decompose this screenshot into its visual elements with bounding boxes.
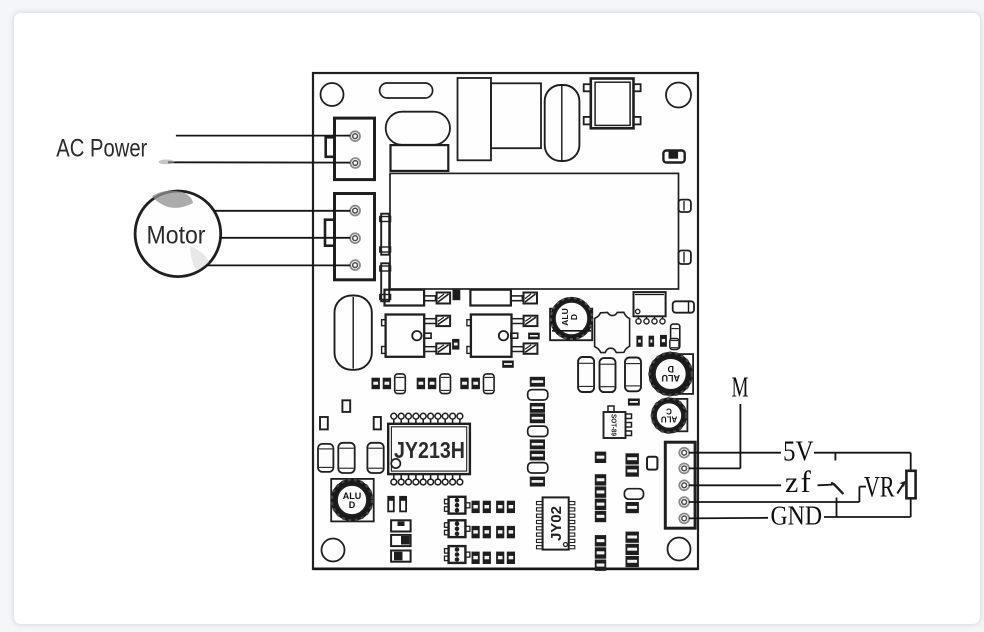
connector J3 (5-pin) [665, 442, 695, 528]
J1 pin 2 [350, 158, 360, 168]
J1 side bracket [326, 137, 335, 157]
switch arm [832, 483, 843, 493]
small dark chip between terminals [453, 290, 460, 300]
hexagonal component X1 [595, 312, 630, 352]
wiper arrow [897, 483, 904, 494]
chip right of Q1 [453, 340, 459, 350]
capacitor CX2 capsule pair [335, 296, 372, 370]
smudge artifact top of motor [152, 191, 193, 208]
IC U2 (SOIC-8) [634, 292, 666, 316]
J2 pin 2 [350, 233, 360, 243]
wire zf right segment [818, 484, 833, 487]
svg-text:AC Power: AC Power [56, 134, 147, 162]
right tab D2 [679, 200, 691, 212]
transistor Q2 (D-PAK) [467, 320, 471, 326]
connector J2 (motor, 3-pin) [335, 194, 375, 280]
capacitors left of U1 [318, 444, 333, 472]
transformer body rect [491, 83, 541, 148]
svg-text:D: D [569, 314, 579, 320]
wire AC line 2 [168, 161, 350, 163]
IC U4 JY02 [537, 502, 543, 505]
switch contact tick from 5V [834, 453, 836, 461]
capacitor CX1 capsule [545, 85, 580, 161]
rectangle component under fuse [391, 145, 449, 171]
chip column A [595, 452, 605, 462]
svg-text:C: C [666, 407, 672, 416]
wire 5V down to VR top [910, 453, 912, 471]
chip column B [626, 454, 638, 464]
left tab C8 [381, 263, 389, 301]
svg-text:VR: VR [864, 470, 895, 503]
J3 pin 2 [679, 464, 689, 474]
capacitor C9 capsule [671, 324, 680, 349]
electrolytic cap C13 (ALU D) [664, 354, 693, 394]
chip row near U2 [637, 336, 642, 346]
svg-text:JY02: JY02 [548, 506, 565, 541]
terminal block T4 with screw [470, 290, 511, 306]
svg-text:GND: GND [771, 501, 823, 531]
svg-text:5V: 5V [783, 435, 814, 467]
mounting hole bottom-right [668, 538, 691, 561]
left tab C7 [381, 214, 389, 255]
switch lower contact to GND [836, 498, 838, 518]
IC U1 JY213H (SOP-20) [393, 419, 395, 425]
wire pin2 to M [689, 467, 740, 469]
mounting hole top-right [666, 83, 691, 108]
svg-text:f: f [801, 464, 812, 499]
wire pin1 5V left segment [689, 452, 781, 454]
electrolytic cap C15 (bottom-left ALU D) [331, 479, 374, 522]
transistor Q1 (D-PAK) [382, 320, 386, 326]
pads under U1 [388, 497, 394, 512]
svg-text:z: z [785, 466, 798, 499]
mounting hole bottom-left [322, 539, 345, 562]
wire pin4 to VR wiper [689, 501, 859, 503]
svg-text:Motor: Motor [147, 222, 206, 250]
svg-text:JY213H: JY213H [394, 437, 465, 463]
J3 pin 1 [679, 448, 689, 458]
wire M vertical [739, 404, 741, 468]
LED D1 [663, 151, 684, 163]
push button SW1 [584, 84, 591, 91]
svg-text:SOT-89: SOT-89 [610, 414, 619, 436]
transformer tall rect [458, 78, 492, 160]
jumper pads left column [342, 400, 350, 412]
J2 pin 3 [350, 260, 360, 270]
J3 pin 3 [679, 480, 689, 490]
potentiometer VR body [906, 471, 915, 499]
J3 pin 4 [679, 497, 689, 507]
wire GND up to VR bottom [910, 498, 912, 517]
wire motor 1 [214, 210, 351, 212]
J3 pin 5 [679, 514, 689, 524]
regulator U3 (SOT-89) [604, 412, 626, 438]
chip rows right of Q3-Q5 [472, 501, 479, 512]
inductor L1 (toroid, ALU D) [550, 309, 592, 341]
chip column x=530 [530, 377, 544, 386]
resistor group row (left) [372, 378, 379, 388]
connector J1 (AC input, 2-pin) [335, 118, 375, 180]
small chip under C13 [629, 399, 640, 405]
fuse obround F1 [386, 112, 450, 145]
wire pin5 GND left segment [689, 517, 768, 520]
wire motor 2 [221, 237, 351, 239]
svg-text:M: M [732, 372, 749, 404]
jumper JP2 [391, 535, 411, 546]
svg-text:D: D [667, 364, 674, 374]
J2 pin 1 [350, 206, 360, 216]
wire GND right segment [824, 516, 911, 518]
Motor circle [135, 191, 221, 277]
chip below Q2 [503, 361, 513, 367]
wire pin3 zf left segment [689, 484, 781, 486]
wire motor 3 [207, 264, 351, 266]
jumper JP3 [391, 551, 411, 562]
wire AC line 1 [176, 135, 350, 137]
slot obround top [380, 83, 433, 98]
mounting hole top-left [321, 83, 344, 106]
SOT-23 transistors Q3-Q5 [449, 497, 466, 514]
resistor R1 [673, 301, 694, 312]
smudge artifact at wire end [159, 160, 175, 165]
right tab D3 [679, 251, 691, 265]
chip right of Q2 [529, 333, 539, 339]
svg-text:D: D [349, 500, 356, 510]
small white box near J3 [647, 457, 657, 470]
heatsink large rectangle [390, 173, 679, 289]
wire 5V right segment [814, 452, 911, 454]
electrolytic cap C14 (ALU C) [668, 399, 687, 431]
J2 side bracket [325, 220, 335, 246]
terminal block T3 with screw [385, 290, 425, 306]
J1 pin 1 [350, 131, 360, 141]
PCB board outline [313, 73, 698, 569]
jumper JP1 [391, 520, 411, 531]
capacitor bank C10-C12 [578, 357, 594, 392]
